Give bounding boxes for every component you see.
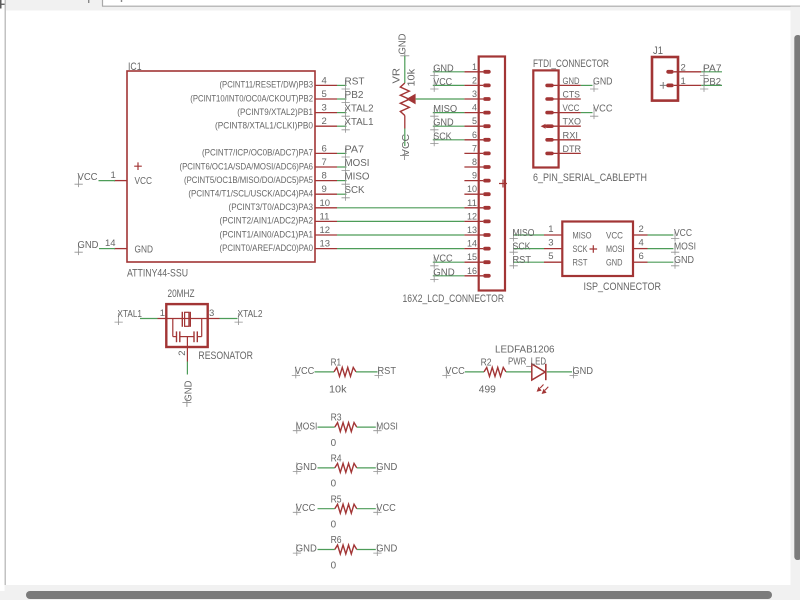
svg-text:GND: GND [376, 462, 397, 473]
svg-text:PWR_LED: PWR_LED [508, 357, 546, 368]
svg-text:SCK: SCK [573, 244, 588, 255]
wire PB2 from J1 [701, 84, 722, 86]
svg-text:MISO: MISO [433, 104, 457, 115]
svg-text:RST: RST [345, 76, 365, 87]
wire SCK to ISP pin 3 [514, 248, 545, 250]
wire GND to VR [404, 56, 406, 83]
net label MOSI [342, 162, 350, 174]
svg-text:VCC: VCC [433, 77, 452, 88]
svg-text:10k: 10k [406, 68, 417, 87]
IC1 pin 9 PA4 [315, 193, 337, 195]
svg-text:6: 6 [472, 130, 477, 141]
net label VCC (R5 left) [293, 503, 301, 515]
svg-text:12: 12 [320, 225, 331, 236]
wire IC1 to LCD pin 11 [337, 207, 464, 209]
wire PB2 stub [337, 98, 347, 100]
svg-text:MOSI: MOSI [345, 158, 370, 169]
svg-text:SCK: SCK [345, 185, 365, 196]
svg-text:(PCINT3/T0/ADC3)PA3: (PCINT3/T0/ADC3)PA3 [229, 202, 314, 212]
wire GND to R6 [318, 549, 335, 551]
svg-text:GND: GND [674, 255, 694, 266]
net label MISO [430, 107, 438, 119]
wire XTAL1 stub [337, 125, 347, 127]
svg-text:GND: GND [433, 267, 455, 278]
svg-text:XTAL2: XTAL2 [345, 104, 374, 115]
net label VCC (R1 left) [292, 366, 300, 378]
svg-text:(PCINT0/AREF/ADC0)PA0: (PCINT0/AREF/ADC0)PA0 [220, 243, 314, 253]
svg-text:3: 3 [209, 308, 214, 319]
resistor R4 [335, 463, 357, 472]
J1 origin cross [660, 82, 667, 89]
wire R6 to GND [357, 549, 376, 551]
svg-text:GND: GND [376, 544, 397, 555]
LCD pin 11 [464, 207, 483, 209]
net label GND (R6 left) [293, 544, 301, 556]
IC1 pin 7 PA6 [315, 166, 337, 168]
svg-text:PA7: PA7 [345, 144, 365, 155]
svg-text:VCC: VCC [78, 172, 98, 183]
LCD pin 9 [464, 180, 483, 182]
svg-text:SCK: SCK [433, 131, 452, 142]
toolbar strip [6, 0, 800, 11]
svg-text:R1: R1 [331, 358, 342, 369]
resistor R6 [335, 545, 357, 554]
wire MISO to LCD pin 4 [433, 112, 465, 114]
svg-text:10k: 10k [329, 385, 348, 396]
net label GND (LED right) [570, 366, 578, 378]
svg-text:RST: RST [378, 366, 397, 377]
net label VCC [75, 175, 83, 187]
net label PB2 [700, 80, 708, 92]
resistor R1 [334, 367, 356, 376]
wire resonator to XTAL2 [220, 318, 238, 320]
svg-text:TXO: TXO [563, 117, 582, 128]
wire VCC from ISP pin 2 [648, 234, 674, 236]
wire IC1 to LCD pin 13 [337, 234, 464, 236]
wire VCC to R2 [465, 371, 484, 373]
svg-text:LEDFAB1206: LEDFAB1206 [495, 345, 555, 356]
net label GND [430, 121, 438, 133]
svg-text:XTAL2: XTAL2 [238, 309, 263, 320]
svg-text:MISO: MISO [513, 228, 535, 239]
net label XTAL2 [342, 107, 350, 119]
net label VCC [590, 107, 598, 119]
connector FTDI body [533, 70, 558, 167]
wire SCK to LCD pin 6 [433, 139, 465, 141]
svg-text:0: 0 [331, 560, 337, 571]
IC1 pin 13 PA0 [315, 248, 337, 250]
wire MOSI from ISP pin 4 [648, 248, 674, 250]
LCD pin 4 [464, 112, 483, 114]
svg-text:(PCINT2/AIN1/ADC2)PA2: (PCINT2/AIN1/ADC2)PA2 [220, 216, 314, 226]
net label MOSI (R3 right) [373, 422, 381, 434]
svg-text:R3: R3 [331, 413, 342, 424]
svg-text:IC1: IC1 [128, 61, 142, 73]
svg-text:8: 8 [322, 171, 327, 182]
net label RST [375, 366, 383, 378]
svg-text:R6: R6 [331, 535, 342, 546]
ISP pin 4 MOSI [633, 248, 648, 250]
ISP pin 1 MISO [544, 234, 562, 236]
svg-text:14: 14 [467, 239, 477, 250]
svg-text:6: 6 [322, 143, 327, 154]
VR bottom pin [404, 116, 406, 129]
svg-text:GND: GND [593, 76, 613, 87]
resonator pin 2 stem [186, 337, 188, 362]
net label MOSI (R3 left) [293, 422, 301, 434]
svg-text:RST: RST [513, 255, 532, 266]
svg-text:VCC: VCC [376, 503, 396, 514]
svg-text:1: 1 [111, 170, 116, 181]
right scrollbar track [791, 7, 800, 586]
net label MOSI [671, 243, 679, 255]
resonator through wire [158, 318, 220, 320]
svg-text:1: 1 [472, 62, 477, 73]
svg-text:(PCINT5/OC1B/MISO/DO/ADC5)PA5: (PCINT5/OC1B/MISO/DO/ADC5)PA5 [184, 175, 313, 185]
svg-text:GND: GND [135, 245, 154, 256]
svg-text:20MHZ: 20MHZ [168, 288, 195, 300]
svg-text:VCC: VCC [295, 366, 315, 377]
IC1 pin 14 GND [114, 248, 127, 250]
svg-text:FTDI_CONNECTOR: FTDI_CONNECTOR [533, 58, 609, 70]
FTDI pin 5 RXI [545, 138, 553, 142]
svg-text:MISO: MISO [345, 172, 370, 183]
IC1 pin 8 PA5 [315, 180, 337, 182]
svg-text:2: 2 [472, 75, 477, 86]
LCD pin 1 [464, 71, 483, 73]
wire GND to LCD pin 16 [433, 275, 465, 277]
svg-text:PA7: PA7 [703, 63, 722, 74]
ISP pin 5 RST [544, 261, 562, 263]
bottom scrollbar thumb [26, 591, 772, 599]
net label VCC [430, 257, 438, 269]
svg-text:5: 5 [548, 251, 553, 262]
svg-text:11: 11 [320, 211, 330, 222]
svg-text:VCC: VCC [401, 134, 412, 156]
wire IC1 to LCD pin 14 [337, 248, 464, 250]
VR wiper arrow [406, 94, 415, 105]
net label RST [510, 257, 518, 269]
wire MOSI to R3 [318, 426, 335, 428]
connector 16X2_LCD body [479, 57, 505, 291]
wire VR wiper to LCD pin 3 [416, 98, 465, 100]
svg-text:(PCINT8/XTAL1/CLKI)PB0: (PCINT8/XTAL1/CLKI)PB0 [215, 121, 313, 131]
net label VCC [671, 230, 679, 242]
svg-text:4: 4 [472, 103, 477, 114]
bottom scrollbar track [0, 585, 800, 600]
FTDI pin 4 TXO [545, 124, 553, 128]
IC1 pin 6 PA7 [315, 152, 337, 154]
wire GND to LCD pin 1 [433, 71, 465, 73]
ISP pin 2 VCC [633, 234, 648, 236]
svg-text:16: 16 [467, 266, 477, 277]
svg-text:PB2: PB2 [703, 77, 721, 88]
wire XTAL1 to resonator [140, 318, 158, 320]
connector J1 body [652, 57, 678, 101]
svg-text:GND: GND [563, 76, 580, 87]
J1 pin 1 [666, 84, 673, 88]
wire LED to GND [547, 371, 572, 373]
wire MOSI stub [337, 166, 347, 168]
svg-text:GND: GND [78, 240, 99, 251]
svg-text:(PCINT6/OC1A/SDA/MOSI/ADC6)PA6: (PCINT6/OC1A/SDA/MOSI/ADC6)PA6 [180, 161, 314, 171]
LCD pin 12 [464, 220, 483, 222]
svg-text:GND: GND [573, 366, 594, 377]
net label GND (R6 right) [373, 544, 381, 556]
J1 pin 2 [666, 70, 673, 74]
svg-text:3: 3 [548, 238, 553, 249]
net label XTAL2 [235, 313, 243, 325]
ISP origin cross [590, 245, 598, 253]
svg-text:MOSI: MOSI [296, 421, 318, 432]
svg-text:2: 2 [639, 224, 644, 235]
svg-text:SCK: SCK [513, 242, 531, 253]
svg-text:(PCINT11/RESET/DW)PB3: (PCINT11/RESET/DW)PB3 [220, 80, 314, 90]
svg-text:15: 15 [467, 252, 477, 263]
svg-text:12: 12 [467, 211, 477, 222]
svg-text:13: 13 [320, 239, 331, 250]
svg-text:9: 9 [322, 184, 327, 195]
svg-text:4: 4 [322, 75, 327, 86]
svg-text:2: 2 [322, 116, 327, 127]
svg-text:4: 4 [639, 238, 644, 249]
svg-text:(PCINT4/T1/SCL/USCK/ADC4)PA4: (PCINT4/T1/SCL/USCK/ADC4)PA4 [188, 189, 313, 199]
svg-text:J1: J1 [653, 45, 663, 57]
svg-text:11: 11 [467, 198, 477, 209]
wire GND from FTDI [581, 84, 593, 86]
LCD pin 7 [464, 152, 483, 154]
svg-text:VCC: VCC [674, 228, 692, 239]
net label GND [671, 257, 679, 269]
svg-text:GND: GND [397, 34, 408, 55]
right scrollbar thumb [794, 35, 800, 560]
wire R4 to GND [357, 467, 376, 469]
svg-text:7: 7 [322, 157, 327, 168]
svg-text:VCC: VCC [433, 254, 453, 265]
LCD pin 3 [464, 98, 483, 100]
svg-text:3: 3 [322, 103, 327, 114]
LCD pin 16 [464, 275, 483, 277]
resonator body box [166, 304, 207, 347]
wire VCC to LCD pin 15 [433, 261, 465, 263]
svg-text:ISP_CONNECTOR: ISP_CONNECTOR [584, 281, 662, 293]
wire GND to IC1 pin 14 [99, 248, 115, 250]
svg-text:5: 5 [322, 89, 327, 100]
wire VCC from FTDI [581, 112, 593, 114]
FTDI TXO direction arrow [541, 124, 546, 129]
svg-text:1: 1 [160, 308, 165, 319]
ISP pin 6 GND [633, 261, 648, 263]
FTDI pin 2 CTS [545, 97, 553, 101]
wire resonator pin 2 to GND [186, 362, 188, 375]
LCD pin 10 [464, 193, 483, 195]
net label PB2 [342, 94, 350, 106]
svg-text:MOSI: MOSI [606, 244, 625, 255]
svg-text:RST: RST [573, 258, 588, 269]
wire MISO to ISP pin 1 [514, 234, 545, 236]
svg-text:5: 5 [472, 116, 477, 127]
LCD pin 6 [464, 139, 483, 141]
wire R3 to MOSI [357, 426, 376, 428]
svg-text:(PCINT1/AIN0/ADC1)PA1: (PCINT1/AIN0/ADC1)PA1 [220, 229, 314, 239]
svg-text:VCC: VCC [135, 176, 153, 187]
wire PA7 stub [337, 152, 347, 154]
svg-text:PB2: PB2 [345, 90, 364, 101]
net label SCK [430, 134, 438, 146]
svg-text:RXI: RXI [563, 130, 579, 141]
crystal body [185, 312, 189, 326]
wire RST stub [337, 84, 347, 86]
svg-text:DTR: DTR [563, 144, 582, 155]
left window border [5, 0, 6, 585]
IC1 pin 11 PA2 [315, 220, 337, 222]
svg-text:10: 10 [320, 198, 331, 209]
net label MISO [342, 175, 350, 187]
LED PWR_LED [532, 364, 545, 380]
net label XTAL1 [115, 313, 123, 325]
net label VCC (R5 right) [373, 503, 381, 515]
svg-text:6_PIN_SERIAL_CABLEPTH: 6_PIN_SERIAL_CABLEPTH [533, 172, 647, 184]
FTDI pin 6 DTR [545, 152, 553, 156]
svg-text:10: 10 [467, 184, 477, 195]
svg-text:GND: GND [183, 381, 194, 402]
svg-text:GND: GND [296, 544, 317, 555]
wire R2 to LED [506, 371, 532, 373]
wire R1 to RST [356, 371, 378, 373]
wire VCC to R1 [315, 371, 335, 373]
16X2_LCD origin cross [499, 180, 507, 188]
svg-text:(PCINT10/INT0/OC0A/CKOUT)PB2: (PCINT10/INT0/OC0A/CKOUT)PB2 [190, 93, 313, 103]
resistor R2 [484, 367, 506, 376]
net label GND (R4 left) [293, 462, 301, 474]
net label GND [430, 270, 438, 282]
potentiometer VR body [400, 83, 409, 116]
net label GND [590, 80, 598, 92]
wire GND from ISP pin 6 [648, 261, 674, 263]
wire VCC to R5 [318, 508, 335, 510]
crystal plates [181, 312, 183, 327]
svg-text:16X2_LCD_CONNECTOR: 16X2_LCD_CONNECTOR [403, 293, 505, 305]
svg-text:GND: GND [433, 63, 454, 74]
net label XTAL1 [342, 121, 350, 133]
wire MISO stub [337, 180, 347, 182]
net label SCK [510, 243, 518, 255]
svg-text:VCC: VCC [296, 503, 316, 514]
wire VCC to LCD pin 2 [433, 84, 465, 86]
wire RST to ISP pin 5 [514, 261, 545, 263]
LCD pin 13 [464, 234, 483, 236]
wire VCC to IC1 pin 1 [99, 180, 116, 182]
svg-text:499: 499 [479, 385, 496, 396]
svg-text:VCC: VCC [606, 231, 623, 242]
ISP pin 3 SCK [544, 248, 562, 250]
svg-text:0: 0 [331, 479, 337, 490]
resistor R3 [335, 423, 357, 432]
IC1 pin 4 PB3 [315, 84, 337, 86]
svg-text:RESONATOR: RESONATOR [198, 350, 253, 362]
toolbar fragment marks [0, 0, 2, 9]
net label SCK [342, 189, 350, 201]
resonator internal capacitors [172, 319, 174, 337]
IC1 origin cross [134, 162, 142, 170]
IC1 pin 2 PB0 [315, 125, 337, 127]
wire PA7 from J1 [701, 71, 722, 73]
LCD pin 15 [464, 261, 483, 263]
net label RST [342, 80, 350, 92]
svg-text:GND: GND [296, 462, 317, 473]
svg-text:0: 0 [331, 438, 337, 449]
svg-text:R5: R5 [331, 494, 342, 505]
resistor R5 [335, 504, 357, 513]
svg-text:1: 1 [681, 76, 686, 87]
wire GND to R4 [318, 467, 335, 469]
svg-text:0: 0 [331, 520, 337, 531]
svg-text:XTAL1: XTAL1 [345, 117, 374, 128]
LCD pin 8 [464, 166, 483, 168]
svg-text:2: 2 [177, 351, 188, 356]
IC1 pin 12 PA1 [315, 234, 337, 236]
net label VCC (R2 left) [442, 366, 450, 378]
svg-text:9: 9 [472, 171, 477, 182]
FTDI pin 1 GND [545, 84, 553, 88]
svg-text:MOSI: MOSI [376, 421, 398, 432]
wire VR to VCC [404, 129, 406, 147]
svg-text:3: 3 [472, 89, 477, 100]
svg-text:6: 6 [639, 251, 644, 262]
net label PA7 [342, 148, 350, 160]
IC1 pin 1 VCC [114, 180, 127, 182]
svg-text:GND: GND [606, 258, 623, 269]
wire IC1 to LCD pin 12 [337, 220, 464, 222]
net label MISO [510, 230, 518, 242]
wire XTAL2 stub [337, 112, 347, 114]
IC1 pin 10 PA3 [315, 207, 337, 209]
net label PA7 [700, 66, 708, 78]
svg-text:VCC: VCC [593, 104, 613, 115]
net label GND [75, 243, 83, 255]
svg-text:R2: R2 [481, 358, 492, 369]
svg-text:13: 13 [467, 225, 477, 236]
svg-text:VR: VR [391, 68, 402, 84]
svg-text:7: 7 [472, 143, 477, 154]
svg-text:VCC: VCC [445, 366, 465, 377]
net label GND [430, 66, 438, 78]
wire SCK stub [337, 193, 347, 195]
LCD pin 14 [464, 248, 483, 250]
svg-text:GND: GND [433, 118, 454, 129]
address input box bottom edge [103, 0, 800, 6]
net label VCC [430, 80, 438, 92]
wire GND to LCD pin 5 [433, 125, 465, 127]
svg-text:R4: R4 [331, 454, 342, 465]
svg-text:2: 2 [681, 62, 686, 73]
svg-text:VCC: VCC [563, 103, 580, 114]
svg-text:(PCINT7/ICP/OC0B/ADC7)PA7: (PCINT7/ICP/OC0B/ADC7)PA7 [202, 148, 313, 158]
IC1 pin 3 PB1 [315, 112, 337, 114]
svg-text:ATTINY44-SSU: ATTINY44-SSU [127, 267, 188, 279]
connector ISP body [562, 222, 633, 277]
IC IC1 body [127, 71, 315, 262]
LCD pin 5 [464, 125, 483, 127]
svg-text:14: 14 [105, 238, 116, 249]
wire R5 to VCC [357, 508, 376, 510]
FTDI pin 3 VCC [545, 111, 553, 115]
svg-text:MOSI: MOSI [674, 242, 696, 253]
svg-text:CTS: CTS [563, 90, 581, 101]
svg-text:XTAL1: XTAL1 [118, 309, 143, 320]
svg-text:8: 8 [472, 157, 477, 168]
svg-text:MISO: MISO [573, 231, 592, 242]
